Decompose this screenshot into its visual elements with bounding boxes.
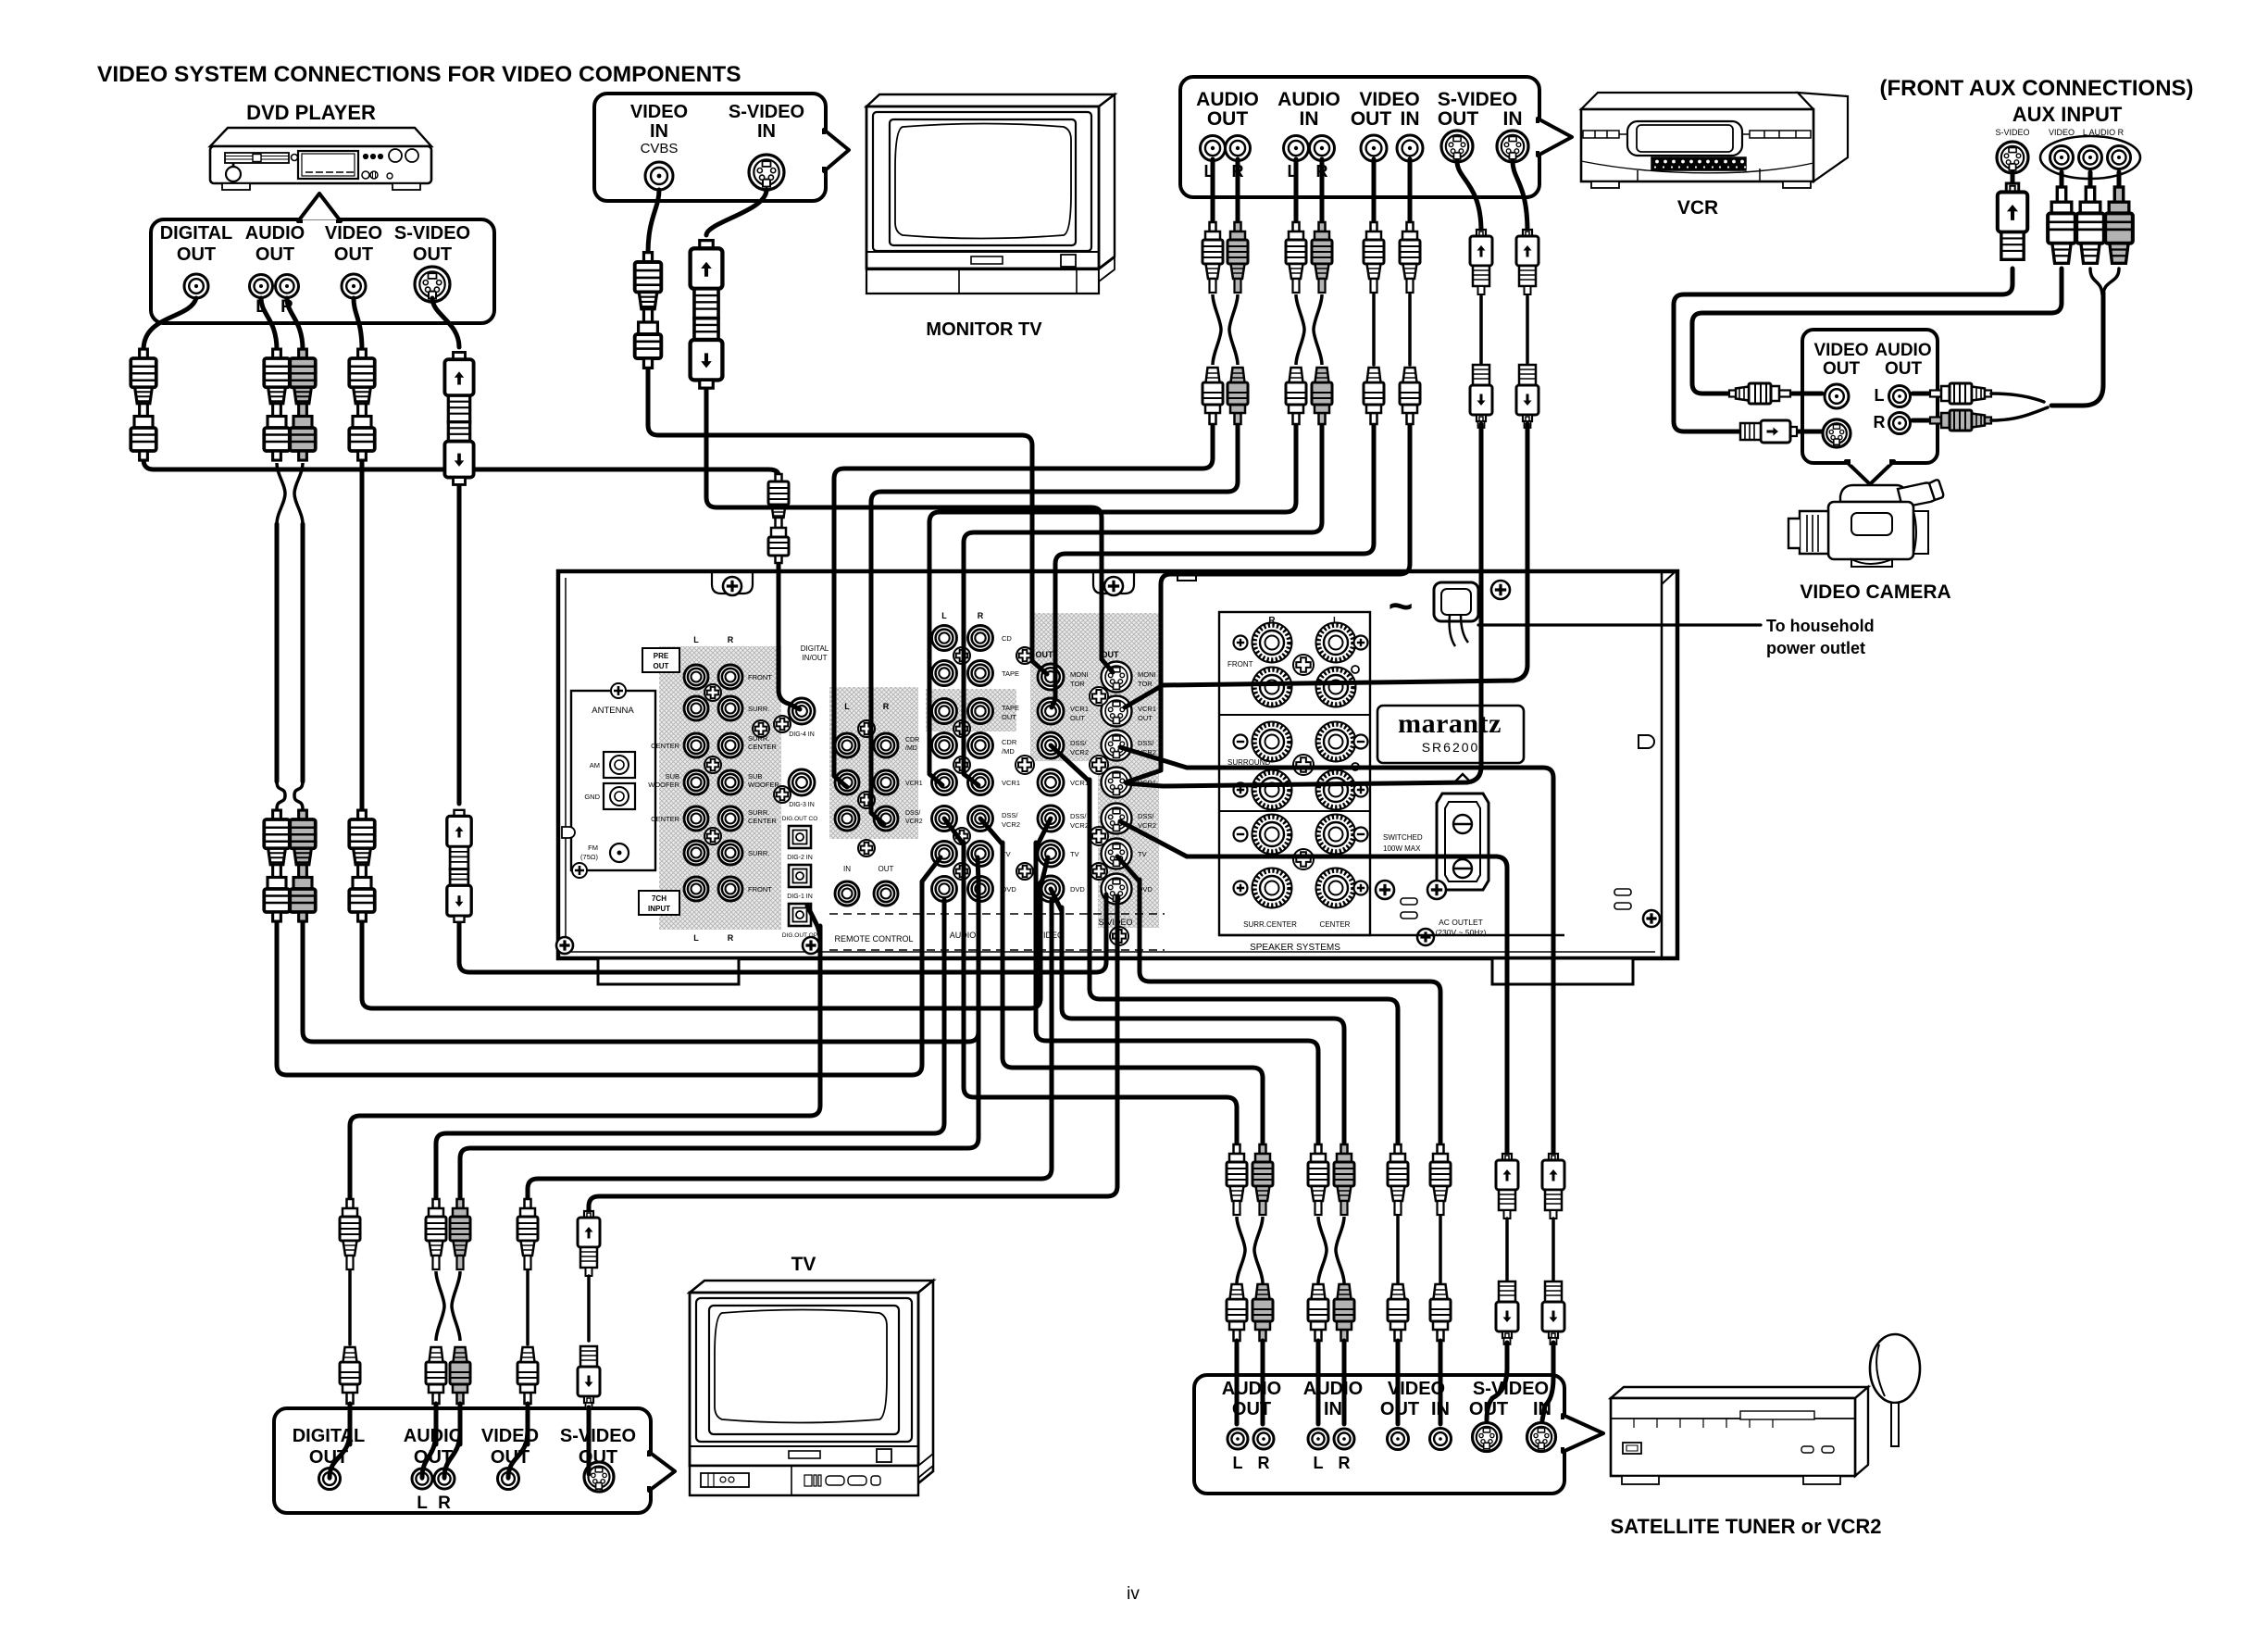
svg-text:CENTER: CENTER <box>651 815 679 823</box>
svg-text:L: L <box>1233 1454 1243 1472</box>
svg-text:VIDEO: VIDEO <box>325 223 382 244</box>
svg-text:power outlet: power outlet <box>1766 639 1865 657</box>
svg-text:REMOTE CONTROL: REMOTE CONTROL <box>834 934 913 944</box>
svg-text:(75Ω): (75Ω) <box>580 853 598 861</box>
svg-text:R: R <box>883 702 890 711</box>
svg-text:IN: IN <box>1300 108 1319 130</box>
svg-text:CENTER: CENTER <box>651 742 679 750</box>
svg-text:TAPE: TAPE <box>1002 704 1019 712</box>
svg-text:SR6200: SR6200 <box>1422 740 1480 755</box>
svg-text:SATELLITE TUNER or VCR2: SATELLITE TUNER or VCR2 <box>1611 1515 1882 1538</box>
svg-text:TV: TV <box>791 1254 816 1275</box>
svg-text:IN: IN <box>1401 108 1420 130</box>
svg-text:S-VIDEO: S-VIDEO <box>394 223 470 244</box>
svg-text:CENTER: CENTER <box>748 743 777 751</box>
svg-text:VIDEO: VIDEO <box>1813 341 1868 360</box>
svg-text:L: L <box>941 611 947 620</box>
svg-text:OUT: OUT <box>1438 108 1479 130</box>
svg-text:S-VIDEO: S-VIDEO <box>729 102 804 122</box>
svg-text:L: L <box>417 1494 428 1513</box>
svg-text:iv: iv <box>1127 1584 1140 1604</box>
svg-text:VIDEO: VIDEO <box>481 1426 539 1446</box>
svg-text:IN: IN <box>757 121 776 142</box>
svg-text:AM: AM <box>590 761 600 769</box>
svg-text:CDR: CDR <box>905 737 919 744</box>
svg-text:TOR: TOR <box>1138 680 1153 688</box>
svg-text:AC OUTLET: AC OUTLET <box>1439 918 1483 927</box>
svg-text:TV: TV <box>1070 850 1079 858</box>
svg-text:R: R <box>728 933 734 943</box>
svg-text:FRONT: FRONT <box>1227 660 1253 669</box>
svg-text:/MD: /MD <box>905 745 917 752</box>
svg-text:AUDIO: AUDIO <box>1222 1379 1281 1399</box>
svg-text:FRONT: FRONT <box>748 885 772 894</box>
svg-text:(230V ~ 50Hz): (230V ~ 50Hz) <box>1435 928 1486 937</box>
svg-text:VCR2: VCR2 <box>905 819 923 825</box>
svg-text:AUDIO: AUDIO <box>1303 1379 1363 1399</box>
svg-text:CD: CD <box>1002 634 1012 643</box>
svg-text:AUDIO: AUDIO <box>1196 89 1259 110</box>
svg-text:SURR.: SURR. <box>748 705 769 713</box>
svg-text:S-VIDEO: S-VIDEO <box>1438 89 1517 110</box>
svg-text:WOOFER: WOOFER <box>648 781 679 789</box>
svg-text:DSS/: DSS/ <box>1070 812 1087 820</box>
svg-text:VIDEO: VIDEO <box>1359 89 1419 110</box>
svg-text:SUB: SUB <box>748 772 762 781</box>
svg-text:DIG.OUT OP: DIG.OUT OP <box>782 932 817 939</box>
svg-text:OUT: OUT <box>1207 108 1249 130</box>
svg-text:VIDEO: VIDEO <box>630 102 688 122</box>
svg-text:CVBS: CVBS <box>641 141 679 156</box>
svg-text:OUT: OUT <box>879 865 894 873</box>
svg-text:IN: IN <box>843 865 851 873</box>
svg-text:VIDEO CAMERA: VIDEO CAMERA <box>1800 581 1950 603</box>
svg-text:VCR2: VCR2 <box>1070 748 1089 756</box>
svg-text:SURR.: SURR. <box>748 808 769 817</box>
svg-text:TV: TV <box>1138 850 1147 858</box>
svg-text:VCR2: VCR2 <box>1138 821 1156 830</box>
svg-text:SUB: SUB <box>666 772 679 781</box>
svg-text:L: L <box>693 635 699 644</box>
svg-text:MONI: MONI <box>1138 670 1156 679</box>
svg-text:100W MAX: 100W MAX <box>1383 844 1421 853</box>
svg-text:GND: GND <box>584 793 600 801</box>
svg-text:OUT: OUT <box>177 244 216 265</box>
svg-text:OUT: OUT <box>1036 650 1054 659</box>
svg-text:OUT: OUT <box>654 662 669 670</box>
svg-text:DSS/: DSS/ <box>905 810 920 817</box>
svg-text:R: R <box>1874 413 1886 431</box>
svg-text:R: R <box>438 1494 451 1513</box>
svg-text:~: ~ <box>1389 581 1414 630</box>
svg-text:FM: FM <box>588 844 598 852</box>
svg-text:IN: IN <box>1503 108 1523 130</box>
svg-text:SURR.: SURR. <box>748 849 769 857</box>
svg-text:WOOFER: WOOFER <box>748 781 779 789</box>
svg-text:DSS/: DSS/ <box>1070 739 1087 747</box>
svg-text:OUT: OUT <box>255 244 294 265</box>
svg-text:R: R <box>1258 1454 1270 1472</box>
svg-text:DSS/: DSS/ <box>1138 812 1154 820</box>
svg-text:VCR1: VCR1 <box>1002 779 1020 787</box>
svg-text:CENTER: CENTER <box>748 817 777 825</box>
svg-text:PRE: PRE <box>654 652 669 660</box>
svg-text:/MD: /MD <box>1002 747 1015 756</box>
svg-text:S-VIDEO: S-VIDEO <box>560 1426 636 1446</box>
svg-text:7CH: 7CH <box>652 894 667 903</box>
svg-text:SURR.CENTER: SURR.CENTER <box>1243 920 1297 929</box>
svg-text:DIG-3 IN: DIG-3 IN <box>789 802 815 808</box>
svg-text:OUT: OUT <box>413 244 452 265</box>
svg-text:OUT: OUT <box>1138 714 1153 722</box>
svg-text:DVD: DVD <box>1070 885 1085 894</box>
svg-text:L: L <box>844 702 850 711</box>
svg-text:DIG.OUT CO: DIG.OUT CO <box>782 816 818 822</box>
svg-text:TAPE: TAPE <box>1002 669 1019 678</box>
svg-text:VCR1: VCR1 <box>1070 705 1089 713</box>
svg-text:VIDEO: VIDEO <box>2049 128 2075 137</box>
svg-text:VIDEO SYSTEM CONNECTIONS FOR V: VIDEO SYSTEM CONNECTIONS FOR VIDEO COMPO… <box>97 62 741 87</box>
svg-text:OUT: OUT <box>1351 108 1392 130</box>
svg-text:R: R <box>728 635 734 644</box>
svg-text:S-VIDEO: S-VIDEO <box>1473 1379 1549 1399</box>
svg-text:OUT: OUT <box>1823 359 1861 379</box>
svg-text:DIG-2 IN: DIG-2 IN <box>787 855 813 861</box>
svg-text:FRONT: FRONT <box>748 673 772 681</box>
svg-text:R: R <box>1339 1454 1351 1472</box>
svg-text:VCR1: VCR1 <box>905 781 923 787</box>
svg-text:L: L <box>1314 1454 1324 1472</box>
svg-text:INPUT: INPUT <box>648 905 670 913</box>
svg-text:OUT: OUT <box>1002 713 1016 721</box>
svg-text:MONITOR TV: MONITOR TV <box>926 319 1042 340</box>
svg-text:DIGITAL: DIGITAL <box>293 1426 366 1446</box>
svg-text:VCR1: VCR1 <box>1138 705 1156 713</box>
svg-text:IN: IN <box>650 121 668 142</box>
svg-text:TOR: TOR <box>1070 680 1085 688</box>
svg-text:L: L <box>693 933 699 943</box>
svg-text:AUDIO: AUDIO <box>1875 341 1931 360</box>
svg-text:DVD PLAYER: DVD PLAYER <box>246 101 376 124</box>
svg-text:DIG-1 IN: DIG-1 IN <box>787 894 813 900</box>
svg-text:CDR: CDR <box>1002 738 1017 746</box>
svg-text:DIGITAL: DIGITAL <box>801 644 829 653</box>
svg-text:DIG-4 IN: DIG-4 IN <box>789 731 815 738</box>
svg-text:MONI: MONI <box>1070 670 1089 679</box>
svg-text:DIGITAL: DIGITAL <box>160 223 233 244</box>
svg-text:OUT: OUT <box>1070 714 1085 722</box>
svg-text:IN: IN <box>1324 1399 1342 1419</box>
svg-text:SPEAKER SYSTEMS: SPEAKER SYSTEMS <box>1250 943 1340 953</box>
svg-text:CENTER: CENTER <box>1320 920 1351 929</box>
svg-text:L: L <box>1875 386 1885 405</box>
svg-text:OUT: OUT <box>1885 359 1923 379</box>
svg-text:SWITCHED: SWITCHED <box>1383 833 1423 842</box>
svg-text:ANTENNA: ANTENNA <box>592 706 634 716</box>
svg-text:DSS/: DSS/ <box>1138 739 1154 747</box>
svg-text:S-VIDEO: S-VIDEO <box>1995 128 2029 137</box>
svg-text:OUT: OUT <box>334 244 373 265</box>
svg-text:DSS/: DSS/ <box>1002 811 1018 819</box>
svg-text:VCR2: VCR2 <box>1070 821 1089 830</box>
svg-text:marantz: marantz <box>1398 708 1502 739</box>
svg-text:(FRONT AUX CONNECTIONS): (FRONT AUX CONNECTIONS) <box>1879 76 2193 101</box>
svg-text:R: R <box>978 611 984 620</box>
svg-text:AUX INPUT: AUX INPUT <box>2013 103 2123 126</box>
svg-text:IN/OUT: IN/OUT <box>802 654 827 662</box>
svg-text:To household: To household <box>1766 617 1875 635</box>
svg-text:AUDIO: AUDIO <box>245 223 305 244</box>
svg-text:AUDIO: AUDIO <box>1277 89 1340 110</box>
svg-text:VCR2: VCR2 <box>1002 820 1020 829</box>
svg-text:VCR: VCR <box>1677 197 1718 219</box>
